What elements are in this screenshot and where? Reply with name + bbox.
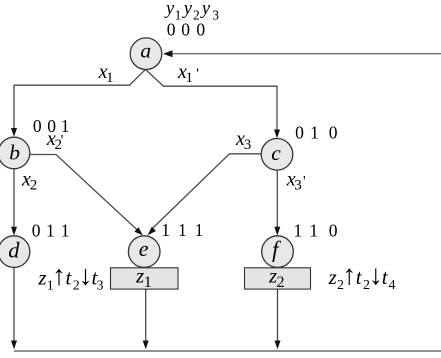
arrowhead at bottom from z1 (pointing down) (143, 341, 149, 350)
arrowhead into node a (pointing left) (163, 50, 173, 57)
arrowhead into node d (pointing down) (11, 227, 17, 236)
node d (state circle) (0, 236, 30, 268)
svg-text:d: d (8, 238, 20, 263)
svg-text:e: e (139, 236, 149, 261)
svg-text:2: 2 (277, 274, 285, 291)
node a (state circle) (130, 38, 162, 70)
arrowhead into node f (pointing down) (274, 227, 280, 236)
wire: d down to bottom bus (13, 267, 15, 343)
svg-text:000: 000 (167, 20, 206, 40)
svg-text:z: z (135, 263, 144, 287)
svg-text:1: 1 (144, 274, 152, 291)
wire: from a bottom, left diagonal branch (x1) (14, 69, 146, 130)
wire: bottom feedback bus to right edge (14, 350, 441, 352)
output box z1 (111, 268, 179, 289)
svg-text:b: b (9, 140, 20, 164)
svg-text:111: 111 (161, 220, 203, 240)
svg-text:010: 010 (295, 123, 338, 143)
svg-text:c: c (271, 141, 281, 165)
svg-text:': ' (196, 66, 199, 82)
node f (state circle) (262, 236, 294, 268)
arrowhead into node b (pointing down) (11, 128, 17, 137)
svg-text:011: 011 (32, 221, 70, 241)
svg-text:1: 1 (106, 70, 114, 86)
node c (state circle) (261, 139, 293, 171)
arrowhead into node e from upper-right (148, 227, 157, 236)
node e (state circle) (128, 236, 160, 268)
arrowhead into node e from upper-left (134, 227, 143, 235)
arrowhead into node c (pointing down) (274, 130, 280, 139)
svg-text:yyy: yyy (164, 0, 211, 19)
wire: z2 box down to bottom bus (277, 289, 279, 343)
svg-text:': ' (61, 133, 64, 149)
svg-text:3: 3 (244, 137, 252, 153)
wire: c to f (x3') (276, 170, 278, 229)
wire: top feedback line from right edge into node a (171, 53, 441, 55)
svg-text:2: 2 (30, 178, 38, 194)
arrowhead at bottom from z2 (pointing down) (275, 341, 281, 350)
svg-text:110: 110 (294, 221, 338, 241)
arrowhead at bottom from d (pointing down) (11, 341, 17, 350)
svg-text:': ' (303, 173, 306, 189)
output box z2 (245, 268, 311, 289)
svg-text:1: 1 (186, 70, 194, 86)
svg-text:3: 3 (294, 178, 302, 194)
wire: from a bottom, right diagonal branch (x1') (146, 69, 278, 131)
svg-text:a: a (140, 39, 151, 63)
wire: z1 box down to bottom bus (145, 289, 147, 343)
wire: b to d (x2) (13, 169, 15, 229)
node b (state circle) (0, 137, 30, 169)
wire: c to e (x3) horizontal then diagonal (152, 154, 261, 229)
wire: b to e (x2') horizontal then diagonal (30, 155, 138, 232)
